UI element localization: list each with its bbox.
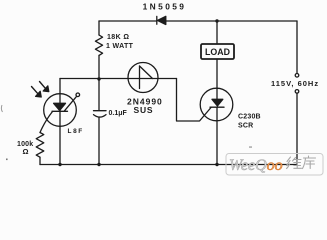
LASCR L8F gate terminal [76,93,80,97]
SUS Q1 2N4990 circle [128,63,158,93]
scan speck dot [6,159,8,161]
label 100k [17,141,33,148]
AC terminal upper [295,74,299,78]
junction node bottom cap [97,163,100,166]
watermark WeeQoo [229,157,283,174]
wire AC right vertical upper [296,21,298,73]
wire L8F to 100k [40,112,53,133]
junction node bottom L8F [58,163,61,166]
label 0.1uF [109,110,128,117]
label 115V 60Hz [271,79,319,88]
label 1N5059 [143,1,187,11]
label 1 WATT [106,43,134,50]
light arrow 1 [32,87,42,98]
watermark border [226,154,323,176]
svg-text:SCR: SCR [238,123,253,130]
label C230B [238,114,261,121]
LASCR V1 L8F circle [44,94,77,127]
LASCR L8F cathode bar [52,110,68,112]
wire 100k bottom lead [39,157,41,164]
SCR C230B cathode bar [210,106,224,108]
watermark weiku characters [287,156,316,169]
SUS 2N4990 internal symbol [140,66,153,89]
label SCR [238,123,253,130]
label LOAD [205,47,230,57]
wire left vertical mid [98,55,100,79]
svg-text:C230B: C230B [238,114,261,121]
svg-text:18K Ω: 18K Ω [107,34,129,41]
label L8F [68,128,84,135]
wire capacitor lower lead [98,117,100,164]
LASCR L8F triangle [54,103,66,110]
junction node top rail / load [215,19,218,22]
wire left vertical upper (to 18k) [98,21,100,35]
SCR Q2 C230B circle [200,88,233,121]
svg-text:SUS: SUS [134,105,154,115]
svg-text:1 WATT: 1 WATT [106,43,134,50]
wire load to SCR [216,59,218,88]
svg-text:L8F: L8F [68,128,84,135]
wire load upper lead [216,21,218,44]
svg-text:1N5059: 1N5059 [143,1,187,11]
SCR C230B triangle [212,99,223,106]
wire SUS horizontal [60,78,177,80]
label ohm [23,147,29,156]
wire top rail right segment [166,20,297,22]
label SUS [134,105,154,115]
resistor R2 100k [36,133,44,158]
label 18K ohm [107,34,129,41]
junction node bottom SCR [215,163,218,166]
AC terminal lower [295,90,299,94]
resistor R1 18K 1 WATT [95,35,102,55]
wire bottom rail [40,164,297,166]
label 2N4990 [127,97,163,107]
svg-text:LOAD: LOAD [205,47,230,57]
svg-text:0.1μF: 0.1μF [109,110,128,117]
LASCR L8F gate lead [65,97,77,111]
svg-text:WeeQoo: WeeQoo [229,157,283,174]
svg-text:115V, 60Hz: 115V, 60Hz [271,79,319,88]
scan speck dash [249,147,252,148]
wire capacitor upper lead [98,79,100,111]
wire AC right vertical lower [296,93,298,164]
wire top rail left segment [99,20,157,22]
junction node SUS line / cap [97,77,100,80]
scan speck left arc [1,105,2,112]
light arrow 2 [40,82,49,92]
wire L8F anode vertical [59,79,61,165]
diode D1 1N5059 [157,16,166,24]
wire SCR vertical through [216,88,218,164]
capacitor C1 0.1uF [94,111,107,117]
wire SUS output to SCR gate [177,79,212,122]
svg-text:Ω: Ω [23,147,29,156]
LOAD box [201,44,234,59]
